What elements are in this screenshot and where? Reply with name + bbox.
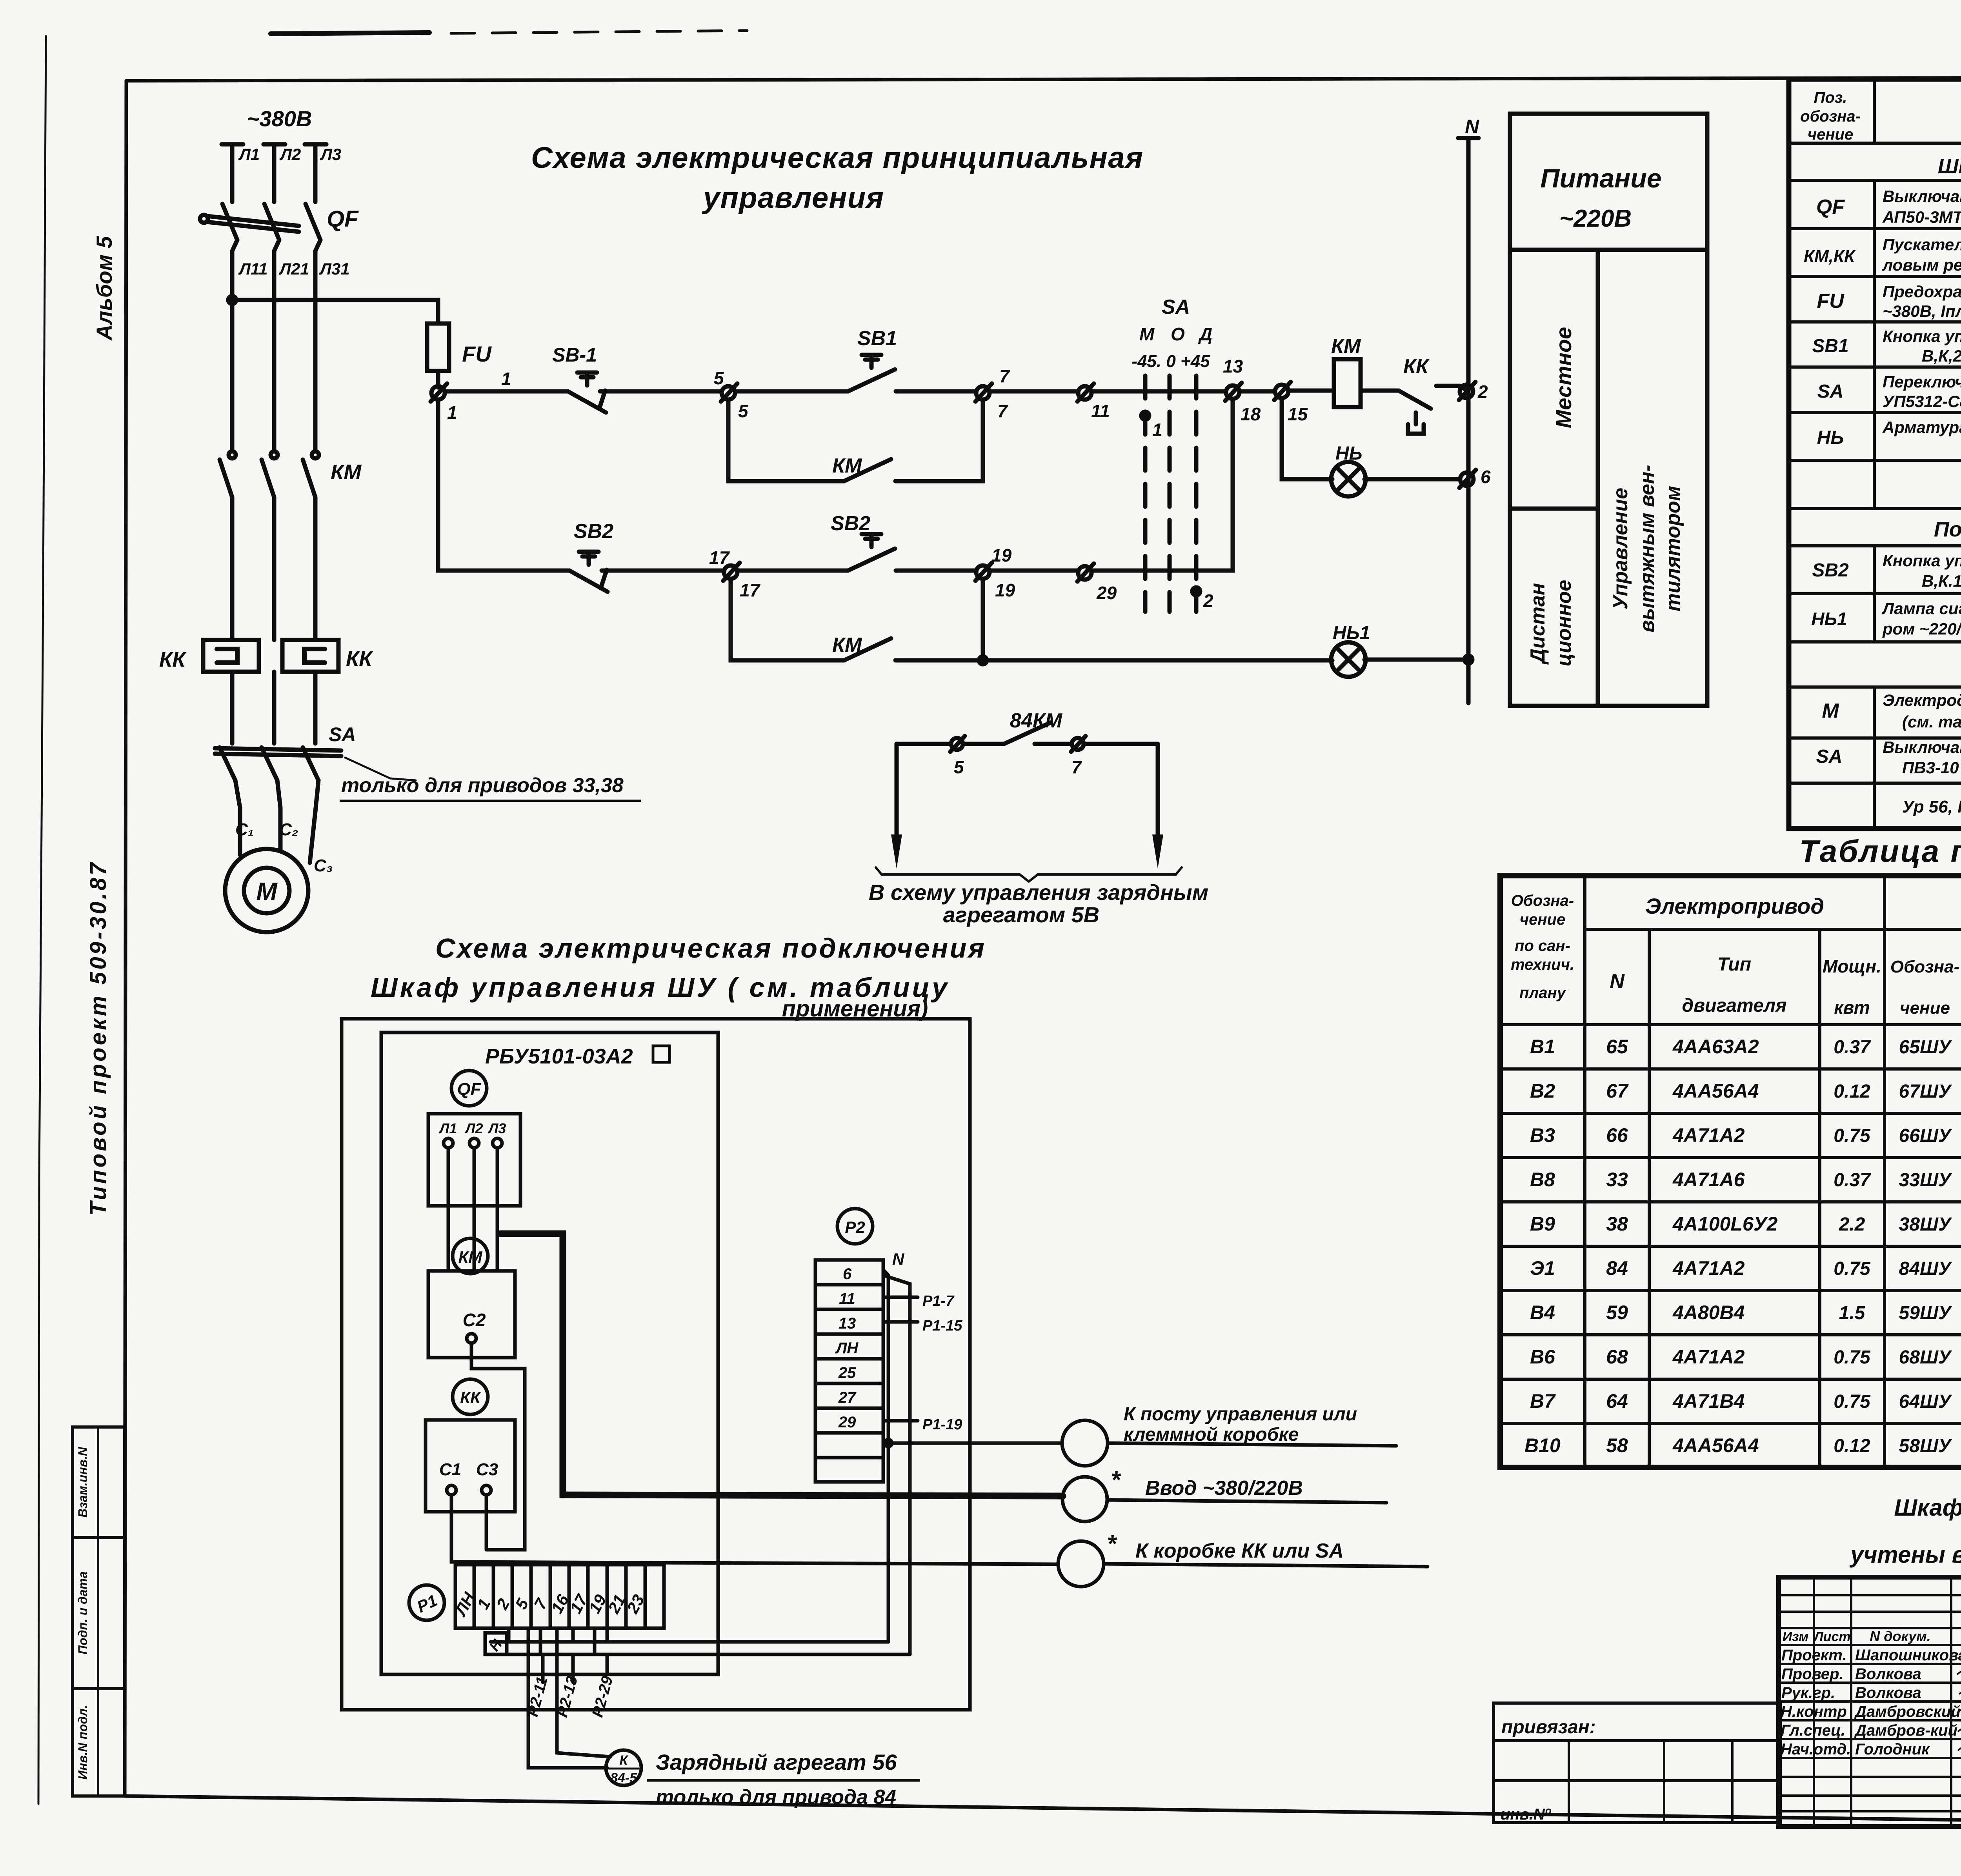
svg-text:4А100L6У2: 4А100L6У2 [1672,1213,1778,1235]
svg-text:19: 19 [991,545,1012,565]
node 29 terminal circle [1078,566,1091,580]
left half split [1510,507,1598,511]
svg-text:18: 18 [1241,404,1261,424]
svg-text:SВ1: SВ1 [857,327,897,350]
N line [1458,138,1479,703]
svg-text:только для приводов 33,38: только для приводов 33,38 [341,774,624,797]
svg-text:Электропривод: Электропривод [1645,894,1824,918]
thermal relay KK heater right [282,640,338,672]
header row bottom [1789,142,1961,145]
svg-text:Схема электрическая подключе: Схема электрическая подключения [435,933,984,963]
svg-text:Обозна-: Обозна- [1890,957,1960,976]
svg-text:68ШУ: 68ШУ [1899,1347,1952,1368]
svg-text:Зарядный агрегат 56: Зарядный агрегат 56 [656,1750,897,1774]
pushbutton SB1 (NO) [848,369,895,391]
svg-text:Дамбров-кий: Дамбров-кий [1854,1722,1957,1739]
svg-text:84: 84 [1606,1257,1628,1279]
svg-text:ЛН: ЛН [835,1340,859,1357]
svg-text:КК: КК [1403,355,1430,378]
svg-text:КМ: КМ [1331,335,1361,358]
svg-text:Шкаф управления ШУ (см.таблицу: Шкаф управления ШУ (см.таблицу применени… [1938,155,1961,178]
node 7 terminal [1072,738,1084,750]
svg-text:Р1-15: Р1-15 [922,1318,962,1334]
wire L1 to KM box [447,1148,450,1271]
svg-text:В,К.1з; 1р: В,К.1з; 1р [1922,572,1961,590]
svg-text:2.2: 2.2 [1839,1214,1865,1235]
svg-text:7: 7 [1071,757,1082,777]
node 17 terminal circle [724,565,737,579]
wire rail1 seg F [1091,389,1226,394]
wire L2 to KM box [473,1148,476,1271]
svg-text:М: М [1139,324,1155,344]
cable bundle to vvod circle [500,1234,1063,1496]
svg-text:59: 59 [1606,1302,1628,1323]
wire rail2 seg C [737,569,848,573]
breaker QF tie bar [207,216,299,232]
svg-text:Электродвигатель: Электродвигатель [1883,691,1961,709]
svg-text:Лист: Лист [1813,1629,1850,1644]
node 5 terminal [951,738,963,750]
svg-text:1.5: 1.5 [1839,1303,1866,1323]
svg-text:В3: В3 [1530,1124,1555,1146]
svg-text:КК: КК [346,647,373,671]
svg-text:КК: КК [460,1388,482,1407]
svg-text:4А71В4: 4А71В4 [1672,1390,1745,1412]
svg-text:Выключатель пакетный 3-х по: Выключатель пакетный 3-х полюсный [1883,738,1961,756]
svg-text:4АА56А4: 4АА56А4 [1672,1080,1759,1102]
wire rail1 seg E [990,389,1078,394]
svg-text:В10: В10 [1524,1434,1561,1456]
svg-text:Выключатель автоматический т: Выключатель автоматический типа [1883,187,1961,205]
svg-text:Шапошникова: Шапошникова [1855,1647,1961,1664]
lamp HL [1331,462,1366,496]
svg-text:Инв.N подл.: Инв.N подл. [76,1705,90,1780]
revision rows [1779,1595,1961,1628]
switch SA tie bar [215,748,341,756]
component table outer border [1789,79,1961,829]
pushbutton SB2 (NO) [848,549,895,571]
K84-5 circle [606,1750,641,1785]
svg-text:38: 38 [1606,1213,1628,1235]
svg-text:Пост управления ПС (см.табли: Пост управления ПС (см.таблицу применени… [1934,518,1961,541]
wires to motor [235,780,240,855]
svg-text:Альбом 5: Альбом 5 [92,236,116,341]
signatures squiggles [1957,1651,1961,1754]
switch SA blades [220,747,235,780]
svg-text:2: 2 [1477,382,1488,402]
under-brace [876,867,1182,882]
svg-text:Дистан: Дистан [1526,583,1549,665]
svg-text:С1: С1 [439,1460,461,1479]
svg-text:КМ: КМ [458,1248,483,1266]
svg-text:SВ2: SВ2 [574,520,613,543]
svg-text:84ШУ: 84ШУ [1899,1258,1952,1279]
svg-text:15: 15 [1288,404,1308,424]
svg-text:Предохранитель типа ПрС-6-П,: Предохранитель типа ПрС-6-П, [1883,282,1961,301]
svg-text:Л11: Л11 [238,260,267,278]
wire rail1 seg C [735,389,848,394]
svg-text:19: 19 [995,580,1015,600]
svg-text:В9: В9 [1530,1213,1555,1235]
stub wires P2-11 P2-13 P2-29 [543,1654,607,1682]
svg-text:Арматура сигнальная типа АЕ3: Арматура сигнальная типа АЕ311У3 [1882,418,1961,436]
svg-text:М: М [1822,700,1839,722]
svg-text:квт: квт [1834,997,1870,1018]
svg-text:66ШУ: 66ШУ [1899,1125,1952,1146]
KM box C2 [428,1271,515,1358]
signature rows [1779,1664,1961,1758]
svg-text:КК: КК [159,648,187,671]
header bottom [1500,1023,1961,1026]
svg-text:HЬ: HЬ [1817,427,1844,448]
divider under header [1510,248,1707,252]
svg-text:N: N [1465,116,1479,138]
svg-text:67: 67 [1606,1080,1629,1102]
svg-text:Изм: Изм [1783,1629,1809,1644]
svg-text:67ШУ: 67ШУ [1899,1081,1952,1102]
svg-text:Обозна-: Обозна- [1511,892,1574,909]
leader to note [345,758,416,780]
svg-text:Кнопка управления типа КЕ 0: Кнопка управления типа КЕ 011У3 [1883,327,1961,345]
svg-text:ром ~220/24В: ром ~220/24В [1882,620,1961,638]
wire rail1 seg G [1239,389,1275,394]
svg-text:1: 1 [1152,420,1162,440]
header band line [1585,928,1961,931]
circle Vvod [1062,1477,1107,1522]
svg-text:Кнопка управления типа КУ: Кнопка управления типа КУ [1883,551,1961,570]
sheet frame left [125,81,126,1796]
svg-text:~380В: ~380В [247,106,312,131]
motor M [225,849,308,932]
P2 bundle wires down [883,1270,888,1642]
svg-text:Питание: Питание [1540,164,1661,193]
terminal L1 [444,1138,453,1148]
svg-text:В схему управления зарядным: В схему управления зарядным [869,880,1208,905]
svg-text:11: 11 [1091,401,1110,421]
row lines [1789,227,1961,230]
KK box C1 C3 [426,1420,515,1512]
col tip dvig [1818,929,1821,1467]
svg-text:Схема электрическая принципи: Схема электрическая принципиальная [531,141,1143,175]
svg-text:О: О [1171,324,1185,344]
thermal KK callout circle [453,1379,488,1414]
svg-text:Р2: Р2 [845,1218,865,1236]
circle K korobke KK [1058,1541,1104,1587]
svg-text:Л31: Л31 [319,260,350,278]
svg-text:С3: С3 [476,1460,498,1479]
svg-text:5: 5 [714,368,724,388]
svg-text:Пускатель магнитный типа ПМЕ: Пускатель магнитный типа ПМЕ-1Н с теп- [1883,235,1961,254]
svg-text:Лампа сигнальная с трансфор: Лампа сигнальная с трансформато- [1881,599,1961,618]
svg-text:Проект.: Проект. [1781,1647,1846,1664]
column: poz.oboznachenie [1873,79,1876,829]
svg-text:привязан:: привязан: [1501,1717,1596,1738]
svg-text:29: 29 [1096,583,1117,603]
svg-text:Р1-19: Р1-19 [922,1416,962,1433]
sheet frame bottom (sloped scan) [125,1796,1961,1829]
svg-text:Д: Д [1198,324,1212,344]
wire C3 [485,1495,488,1550]
svg-text:агрегатом 5В: агрегатом 5В [943,902,1100,927]
svg-text:В1: В1 [1530,1036,1555,1058]
svg-text:0.12: 0.12 [1834,1081,1870,1102]
KM seal-in contact branch [728,400,844,481]
node 2 terminal circle [1460,385,1473,398]
svg-text:Л2: Л2 [464,1120,483,1136]
tick P1-15 [883,1320,918,1324]
svg-text:27: 27 [838,1389,857,1406]
svg-text:К коробке КК или SА: К коробке КК или SА [1135,1540,1344,1562]
contactor KM main poles [229,451,236,458]
svg-text:по сан-: по сан- [1515,937,1570,954]
svg-text:64ШУ: 64ШУ [1899,1391,1952,1412]
svg-text:Р1-7: Р1-7 [922,1293,955,1309]
svg-text:клеммной коробке: клеммной коробке [1124,1424,1299,1445]
svg-text:АП50-3МТ,(см. таблицу примене: АП50-3МТ,(см. таблицу применения) [1882,208,1961,226]
svg-text:двигателя: двигателя [1682,995,1786,1016]
terminal C1 [447,1485,456,1495]
svg-text:QF: QF [1816,196,1845,218]
header row bottom [1779,1644,1961,1646]
svg-text:C₁: C₁ [235,820,254,839]
svg-text:29: 29 [838,1414,856,1431]
svg-text:Волкова: Волкова [1855,1665,1921,1683]
svg-text:FU: FU [462,342,492,366]
svg-text:7: 7 [997,401,1008,421]
svg-text:чение: чение [1900,998,1950,1018]
svg-text:4А71А2: 4А71А2 [1672,1257,1745,1279]
wire rail1 seg A [445,389,568,394]
svg-text:*: * [1111,1467,1121,1494]
svg-text:Л21: Л21 [278,260,309,278]
svg-text:N: N [1610,970,1625,993]
node 19 terminal circle [976,565,990,579]
svg-text:Подп. и дата: Подп. и дата [76,1571,90,1654]
svg-text:обозна-: обозна- [1800,108,1861,125]
svg-text:5: 5 [954,757,964,777]
svg-text:2: 2 [1203,591,1213,611]
wire coil to KK [1361,389,1399,393]
pushbutton SB2 (NC) lower-left [569,571,608,592]
svg-text:технич.: технич. [1511,956,1574,973]
thermal contact KK (NC manual reset) [1399,391,1431,409]
svg-text:управления: управления [702,181,884,215]
svg-text:11: 11 [839,1290,855,1307]
svg-text:6: 6 [1481,467,1491,487]
svg-text:В2: В2 [1530,1080,1555,1102]
svg-text:59ШУ: 59ШУ [1899,1303,1952,1323]
svg-text:FU: FU [1817,290,1845,313]
node 15 terminal circle [1275,385,1288,398]
svg-text:1: 1 [447,402,457,423]
node 13 terminal circle [1226,385,1239,399]
svg-text:HЬ1: HЬ1 [1811,609,1847,629]
QF terminal box [428,1114,520,1206]
svg-text:6: 6 [843,1265,852,1283]
wire rail2 seg E [990,569,1078,573]
svg-text:ловым реле ТРН-10 (см.таблицу: ловым реле ТРН-10 (см.таблицу применения… [1882,256,1961,274]
node 7 terminal circle [976,386,990,400]
svg-text:SВ-1: SВ-1 [552,344,597,366]
node 6 terminal circle [1460,473,1473,486]
svg-text:4А71А2: 4А71А2 [1672,1124,1745,1146]
svg-text:4АА63А2: 4АА63А2 [1672,1036,1759,1058]
wire rail1 seg B [600,389,722,394]
svg-text:1: 1 [501,369,511,389]
pitanie outer box [1510,114,1707,706]
contactor KM callout circle [453,1238,488,1274]
terminal L3 [493,1138,502,1148]
wires to charger K84-5 [528,1628,607,1768]
rail2 from node1 [438,400,569,571]
svg-text:58: 58 [1606,1434,1628,1456]
svg-text:SВ1: SВ1 [1812,336,1848,356]
svg-text:C₂: C₂ [279,820,298,839]
node 11 terminal circle [1078,386,1091,400]
svg-text:Л3: Л3 [488,1120,506,1136]
torn paper edge [38,36,46,1804]
svg-text:13: 13 [839,1315,856,1332]
sheet frame top [126,77,1961,81]
svg-text:66: 66 [1606,1124,1628,1146]
breaker QF callout circle [451,1071,487,1106]
svg-text:В8: В8 [1530,1169,1555,1191]
wire L3 to KM box [496,1148,499,1271]
P1 terminal strip [455,1565,664,1628]
svg-text:84-5: 84-5 [610,1771,637,1785]
HL branch wire [1282,398,1332,479]
svg-text:Переключатель универсальный: Переключатель универсальный типа [1883,373,1961,391]
svg-text:4А80В4: 4А80В4 [1672,1302,1745,1323]
svg-text:65: 65 [1606,1036,1628,1058]
wire rail2 seg B [602,569,724,573]
svg-text:Тип: Тип [1717,954,1751,975]
svg-text:Гл.спец.: Гл.спец. [1781,1722,1845,1739]
svg-text:Л1: Л1 [438,1120,457,1136]
col oboznachenie [1583,876,1586,1467]
svg-text:Дамбровский: Дамбровский [1854,1703,1961,1720]
svg-text:Мощн.: Мощн. [1823,956,1881,976]
svg-text:инв.Nº: инв.Nº [1501,1806,1552,1823]
wire rail2 seg D [896,569,976,573]
wire C2 [471,1343,525,1550]
svg-text:0.75: 0.75 [1834,1258,1871,1279]
svg-text:КМ: КМ [832,454,862,477]
svg-text:17: 17 [740,580,761,600]
terminal C3 [482,1485,491,1495]
svg-text:0.75: 0.75 [1834,1347,1871,1368]
junction node19 drop [981,579,985,660]
tick P1-7 [883,1296,918,1299]
svg-text:5: 5 [738,401,749,421]
svg-text:Взам.инв.N: Взам.инв.N [76,1447,90,1518]
svg-text:SА: SА [1162,296,1190,318]
pushbutton SB-1 (NC) [568,391,606,413]
tick P1-19 [883,1419,918,1423]
svg-text:(см. таблицу применения): (см. таблицу применения) [1902,713,1961,731]
svg-text:КМ: КМ [331,460,362,484]
breaker QF blades [222,204,237,240]
svg-text:Местное: Местное [1551,327,1576,429]
svg-text:С2: С2 [463,1310,486,1330]
svg-text:N докум.: N докум. [1870,1628,1931,1644]
svg-text:Волкова: Волкова [1855,1684,1921,1701]
svg-text:17: 17 [709,547,730,568]
svg-text:Л2: Л2 [279,145,301,164]
vertical divider [1596,250,1600,706]
svg-text:0.37: 0.37 [1834,1170,1871,1191]
svg-text:~380В, Iпл. в-ст. = 6А: ~380В, Iпл. в-ст. = 6А [1883,302,1961,320]
terminal C2 [467,1334,476,1343]
svg-text:Таблица применения: Таблица применения [1799,834,1961,869]
svg-text:Шкаф управления ШУ и кабел: Шкаф управления ШУ и кабели обозначенные… [1894,1494,1961,1521]
svg-text:КМ: КМ [832,634,862,656]
svg-text:Голодник: Голодник [1855,1741,1930,1758]
section title row bottom [1789,179,1961,182]
svg-text:~220В: ~220В [1559,205,1632,232]
wire C1 to KK box cable [451,1495,1058,1564]
svg-text:64: 64 [1606,1390,1628,1412]
wire rail1 seg D [896,389,976,394]
title block outer [1779,1577,1961,1827]
svg-text:Н.контр: Н.контр [1781,1703,1847,1720]
svg-text:QF: QF [327,206,359,232]
wire 84KM top left [897,742,950,746]
bus wires under P1 [491,1642,910,1654]
svg-text:Ур 56, Iн = 6А: Ур 56, Iн = 6А [1902,797,1961,816]
svg-text:N: N [892,1250,905,1268]
svg-text:0.75: 0.75 [1834,1391,1871,1412]
svg-text:плану: плану [1519,984,1566,1002]
svg-text:SА: SА [1816,746,1843,767]
circle K postu [1062,1420,1108,1466]
svg-text:7: 7 [999,366,1010,386]
svg-text:учтены в разделе силового э: учтены в разделе силового электрооборудо… [1849,1542,1961,1568]
switch SA dashed poles [1143,376,1148,612]
svg-text:SВ2: SВ2 [1812,560,1849,581]
svg-text:только для привода 84: только для привода 84 [656,1786,896,1809]
svg-text:УП5312-С86 , ~380В, 6А: УП5312-С86 , ~380В, 6А [1883,392,1961,411]
svg-text:тилятором: тилятором [1662,486,1684,611]
svg-text:Провер.: Провер. [1781,1665,1844,1683]
svg-text:4А71А2: 4А71А2 [1672,1346,1745,1368]
col N [1648,929,1651,1467]
junction dot [228,296,236,304]
cabinet outer box [342,1019,970,1710]
svg-text:В7: В7 [1530,1390,1556,1412]
svg-text:-45. 0 +45: -45. 0 +45 [1131,352,1210,371]
wires to SA [232,672,315,743]
svg-text:Рук.гр.: Рук.гр. [1781,1684,1835,1701]
wire to post upravleniya circle [888,1442,1062,1445]
svg-text:Л1: Л1 [238,145,260,164]
col moschn [1883,876,1886,1467]
KM contact 2 branch [731,579,844,660]
svg-text:4АА56А4: 4АА56А4 [1672,1434,1759,1456]
wire left drop with arrow [895,744,899,835]
P2 terminal strip [815,1260,883,1482]
svg-text:SВ2: SВ2 [831,512,870,535]
small N box under P1 [485,1633,507,1654]
svg-text:Управление: Управление [1609,488,1632,609]
svg-text:HЬ: HЬ [1335,443,1363,464]
svg-text:13: 13 [1223,356,1243,376]
contact 84KM blade [1004,722,1051,744]
terminal L2 [469,1138,479,1148]
svg-text:*: * [1107,1531,1117,1558]
svg-text:чение: чение [1520,911,1565,928]
svg-text:В4: В4 [1530,1302,1555,1323]
